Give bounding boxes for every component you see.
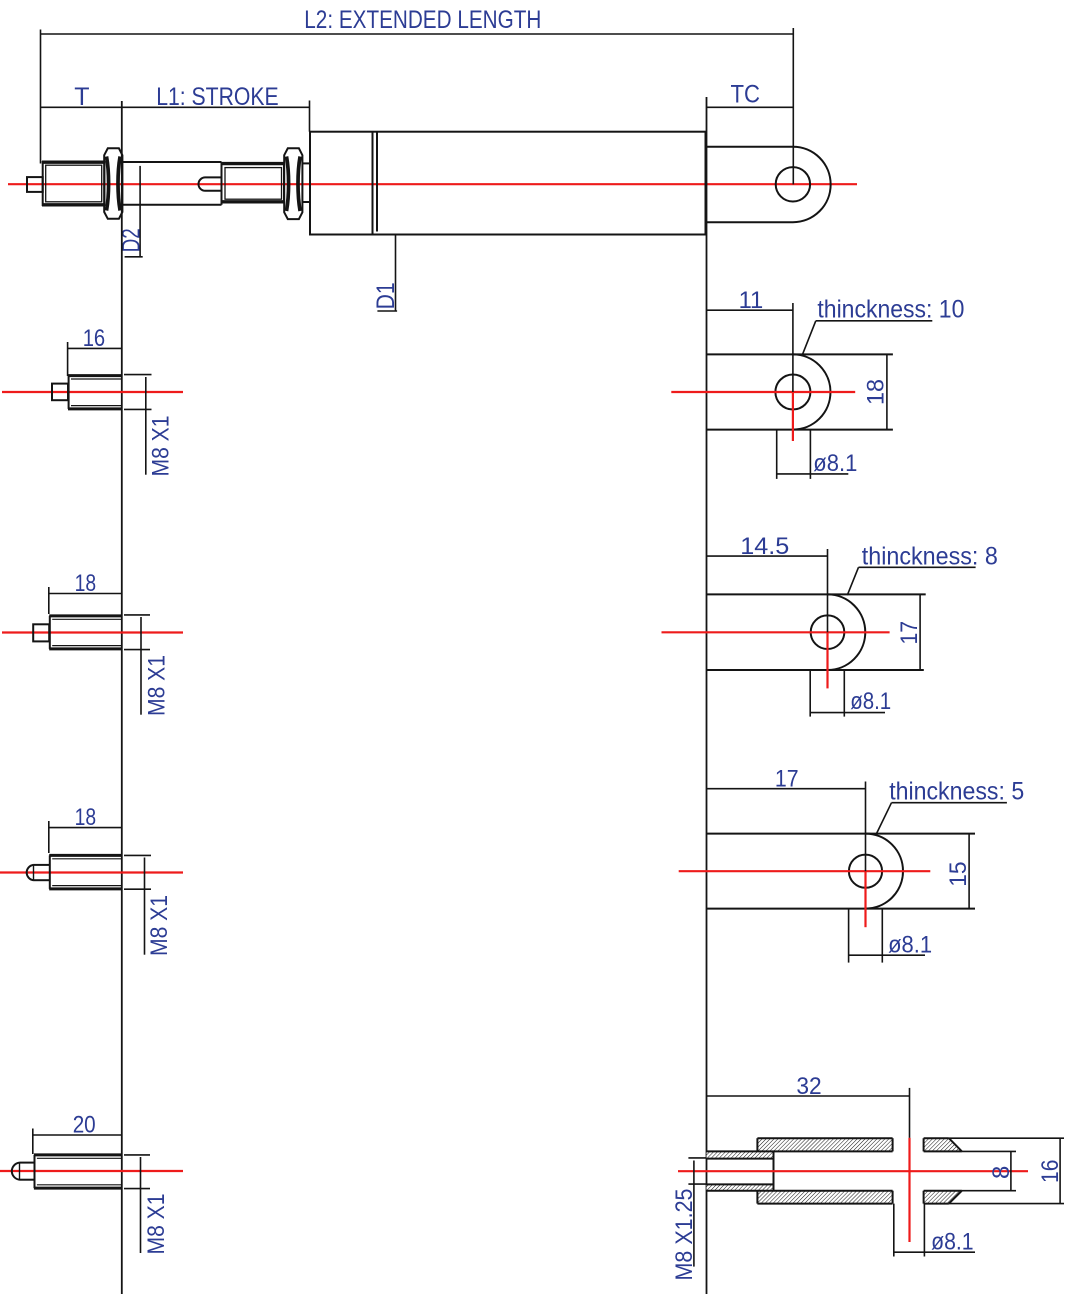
svg-text:32: 32 (796, 1073, 821, 1100)
dimension T (41, 106, 122, 108)
svg-text:thinckness: 5: thinckness: 5 (889, 777, 1024, 805)
dimension L2: EXTENDED LENGTH (41, 28, 794, 184)
dimension 17 (R2) (919, 594, 921, 670)
eyelet end of cylinder (707, 147, 831, 223)
wire: main red centerline (8, 183, 857, 185)
fitting L4 threaded stud (34, 1155, 122, 1188)
label D1 (377, 235, 397, 312)
label thinckness: 5 (877, 803, 1007, 834)
svg-text:18: 18 (75, 570, 97, 597)
dimension 15 (R3) (968, 834, 970, 909)
mid threaded section (222, 163, 285, 202)
svg-text:8: 8 (988, 1166, 1015, 1179)
svg-text:T: T (74, 83, 89, 111)
cylinder body (310, 132, 706, 235)
dimension 18 (R1) (886, 354, 888, 429)
label D2 (125, 166, 143, 257)
pilot pin bullet (199, 177, 222, 190)
dimension 16 (68, 342, 122, 376)
svg-text:M8 X1: M8 X1 (146, 895, 173, 956)
nut N1 (104, 148, 122, 219)
svg-text:L1: STROKE: L1: STROKE (156, 83, 279, 111)
fitting L2 threaded stud (49, 616, 122, 649)
svg-text:M8 X1.25: M8 X1.25 (671, 1189, 698, 1281)
fitting L4 centerline (0, 1170, 183, 1172)
fitting L1 centerline (2, 391, 183, 393)
dimension 11 (707, 303, 793, 392)
fitting L3 dome tip (27, 865, 50, 880)
svg-text:thinckness: 8: thinckness: 8 (862, 543, 998, 571)
svg-text:16: 16 (83, 325, 106, 352)
dimension TC (707, 106, 794, 108)
svg-text:18: 18 (862, 379, 889, 405)
stub between nut and cylinder (302, 162, 310, 164)
fitting R3 eyelet flat 5mm (707, 834, 976, 909)
dimension 16 (OD) (949, 1138, 1064, 1203)
svg-text:16: 16 (1037, 1160, 1064, 1183)
piston rod shaft (122, 162, 221, 205)
svg-text:18: 18 (75, 804, 97, 831)
wire: long left construction line (121, 101, 123, 1294)
dimension 8 (bore) (962, 1151, 1016, 1190)
dimension M8 X1 (L3) (124, 855, 151, 954)
sleeve outline (707, 1138, 962, 1203)
fitting L3 threaded stud (49, 855, 122, 889)
pivot hole circle (776, 167, 810, 201)
svg-text:15: 15 (945, 862, 972, 887)
fitting R1 centerline cross (671, 392, 855, 441)
fitting L4 dome tip (12, 1163, 34, 1180)
svg-text:D1: D1 (372, 282, 400, 309)
svg-text:20: 20 (73, 1112, 96, 1139)
fitting L2 tip square (33, 624, 49, 641)
dimension M8 X1 (L1) (124, 375, 152, 475)
svg-text:ø8.1: ø8.1 (850, 688, 891, 715)
fitting R3 centerline cross (679, 871, 931, 927)
svg-text:L2: EXTENDED LENGTH: L2: EXTENDED LENGTH (304, 6, 541, 34)
dimension 18 (L2) (49, 587, 122, 614)
dimension 14.5 (707, 549, 828, 632)
fitting L1 tip square (52, 384, 68, 401)
dimension M8 X1 (L2) (124, 615, 150, 715)
svg-text:11: 11 (739, 287, 764, 314)
label thinckness: 8 (847, 567, 975, 595)
svg-text:thinckness: 10: thinckness: 10 (817, 296, 964, 324)
hatch fills (707, 1138, 962, 1203)
fitting R2 eyelet flat 8mm (707, 594, 926, 670)
wire: long right construction line (706, 97, 708, 1294)
dimension 18 (L3) (49, 821, 122, 853)
dimension M8 X1 (L4) (124, 1155, 150, 1253)
svg-text:M8 X1: M8 X1 (148, 416, 175, 477)
fitting L3 centerline (0, 871, 183, 873)
svg-text:ø8.1: ø8.1 (813, 450, 857, 477)
fitting L2 centerline (2, 631, 183, 633)
svg-text:ø8.1: ø8.1 (931, 1229, 974, 1256)
dimension ø8.1 (R2) (810, 670, 885, 717)
svg-text:TC: TC (731, 81, 761, 109)
label thinckness: 10 (803, 321, 933, 354)
svg-text:17: 17 (896, 621, 923, 645)
dimension 20 (33, 1129, 122, 1155)
nut N2 (284, 148, 302, 219)
dimension 17 (R3) (707, 782, 866, 872)
dimension M8 X1.25 (688, 1158, 706, 1267)
fitting L1 threaded stud (68, 376, 122, 409)
fitting R4 centerline cross (678, 1138, 1028, 1242)
fitting R2 centerline cross (662, 632, 890, 688)
rod left threaded end M8 (43, 162, 105, 205)
dimension 32 (707, 1088, 910, 1138)
svg-text:M8 X1: M8 X1 (144, 655, 171, 716)
fitting R1 eyelet flat 10mm (707, 354, 893, 429)
dimension ø8.1 (R4) (894, 1204, 975, 1257)
svg-text:ø8.1: ø8.1 (888, 932, 932, 959)
svg-text:14.5: 14.5 (740, 533, 789, 560)
svg-text:M8 X1: M8 X1 (143, 1194, 170, 1255)
dimension ø8.1 (R3) (849, 909, 925, 963)
rod tip square (27, 177, 43, 192)
dimension L1: STROKE (122, 101, 310, 132)
svg-text:17: 17 (775, 766, 799, 793)
dimension ø8.1 (R1) (777, 430, 849, 479)
